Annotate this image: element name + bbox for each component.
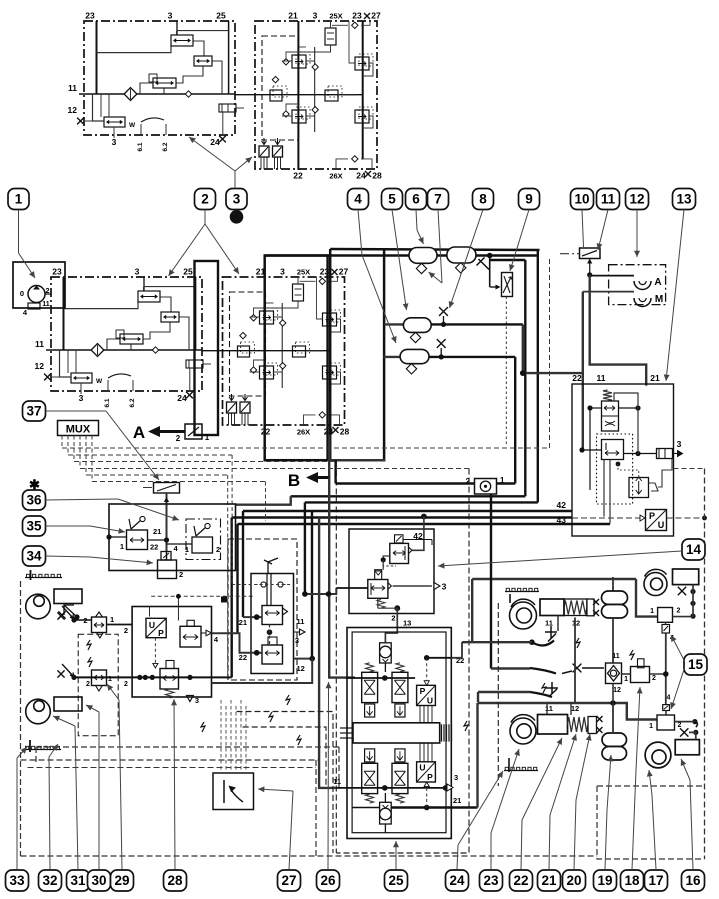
callout 21 [538, 870, 561, 891]
lever [264, 558, 278, 573]
callout 5 [382, 189, 403, 210]
svg-text:26: 26 [320, 873, 336, 888]
svg-text:2: 2 [216, 545, 220, 554]
callout 20 [563, 870, 586, 891]
relief valve 24 [186, 360, 203, 368]
trunk drops to bundle [524, 260, 526, 496]
svg-text:1: 1 [15, 192, 23, 207]
main brake line front [74, 676, 232, 678]
abrasion sensor axle2 [24, 749, 61, 751]
svg-text:29: 29 [114, 873, 129, 888]
svg-text:35: 35 [26, 519, 42, 534]
tall column item 3 [195, 261, 219, 435]
svg-text:3: 3 [280, 267, 285, 277]
outlet 2/13 [377, 598, 379, 608]
dashed small box edges [227, 545, 229, 680]
svg-text:9: 9 [525, 192, 533, 207]
bleed arrow [64, 605, 77, 617]
svg-text:22: 22 [239, 653, 247, 662]
svg-text:11: 11 [297, 617, 305, 626]
port 21 [391, 806, 477, 808]
svg-text:24: 24 [210, 137, 220, 147]
wheel sensor axle2 [26, 699, 51, 724]
callout 36 [23, 490, 46, 510]
svg-text:5: 5 [388, 192, 396, 207]
svg-text:27: 27 [281, 873, 296, 888]
svg-text:19: 19 [597, 873, 612, 888]
proportional valve [153, 78, 176, 88]
svg-text:2: 2 [179, 570, 183, 579]
svg-text:22: 22 [293, 171, 303, 181]
svg-text:24: 24 [356, 171, 366, 181]
svg-text:6.1: 6.1 [104, 398, 111, 407]
svg-text:2: 2 [391, 614, 395, 623]
callout 23 [480, 870, 503, 891]
svg-text:42: 42 [557, 500, 567, 510]
svg-text:20: 20 [566, 873, 581, 888]
svg-text:27: 27 [371, 11, 381, 21]
port 11 row [336, 787, 445, 789]
svg-text:24: 24 [177, 393, 187, 403]
svg-text:1: 1 [120, 542, 124, 551]
valve item 35 [129, 519, 141, 529]
A port box [185, 424, 202, 439]
svg-text:36: 36 [26, 493, 42, 508]
callout 12 [626, 189, 649, 210]
svg-text:1: 1 [624, 676, 628, 683]
svg-text:2: 2 [677, 608, 681, 615]
line to rear top [305, 588, 336, 594]
relay module box [132, 607, 211, 698]
dashed wiring bottom-left [20, 581, 22, 856]
relay valve of 14 [375, 570, 382, 580]
svg-text:2: 2 [124, 626, 128, 635]
svg-text:3: 3 [454, 773, 458, 782]
main line through [235, 94, 363, 96]
tank row3 [383, 356, 400, 358]
pressure switch 6.1/6.2 [140, 124, 142, 135]
governor [602, 401, 619, 431]
svg-text:A: A [654, 277, 661, 288]
callout 16 [682, 870, 705, 891]
svg-text:12: 12 [68, 105, 78, 115]
svg-text:28: 28 [167, 873, 183, 888]
unload valve 3 [657, 449, 673, 459]
callout 30 [88, 870, 111, 891]
callout 10 [571, 189, 594, 210]
callout 8 [473, 189, 494, 210]
svg-text:33: 33 [9, 873, 25, 888]
branch + check [487, 253, 493, 259]
svg-text:M: M [655, 294, 663, 305]
relief valve 24 [219, 104, 236, 112]
svg-text:25X: 25X [297, 268, 310, 277]
svg-text:1: 1 [500, 476, 505, 485]
svg-text:3: 3 [135, 267, 140, 277]
svg-text:23: 23 [52, 267, 62, 277]
circuit protection valves [292, 55, 306, 68]
svg-text:4: 4 [354, 192, 362, 207]
svg-text:21: 21 [239, 618, 247, 627]
svg-text:3: 3 [195, 696, 199, 705]
svg-text:17: 17 [648, 873, 663, 888]
svg-text:P: P [158, 628, 164, 638]
charge valve [325, 28, 336, 45]
elec bolts [201, 722, 205, 732]
solenoid valve 2 [194, 56, 212, 66]
callout 22 [510, 870, 533, 891]
dashed enclosure accumulators [335, 462, 337, 854]
svg-text:U: U [419, 763, 425, 773]
feed step from supply line [636, 579, 658, 617]
svg-text:12: 12 [613, 687, 621, 694]
svg-text:31: 31 [70, 873, 86, 888]
svg-text:21: 21 [453, 796, 461, 805]
callout 9 [519, 189, 540, 210]
svg-text:3: 3 [79, 393, 84, 403]
levelling valve item 19 [606, 663, 622, 684]
svg-text:23: 23 [352, 11, 362, 21]
svg-text:1: 1 [649, 723, 653, 730]
port 22 [427, 657, 452, 659]
pump column links [384, 663, 386, 672]
svg-text:18: 18 [624, 873, 640, 888]
test port box [475, 479, 497, 495]
callout 26 [317, 870, 340, 891]
center valve [293, 346, 306, 357]
valve row2 right [657, 715, 675, 730]
svg-text:3: 3 [168, 11, 173, 21]
regeneration valve [629, 478, 649, 498]
svg-text:2: 2 [176, 434, 181, 443]
svg-text:1: 1 [108, 676, 112, 683]
svg-text:1: 1 [650, 608, 654, 615]
svg-text:0: 0 [20, 289, 24, 298]
P/U top [417, 685, 436, 705]
svg-text:3: 3 [677, 439, 682, 449]
air tank 6b [447, 247, 476, 263]
svg-text:W: W [129, 122, 136, 129]
callout 32 [39, 870, 62, 891]
callout 11 [597, 189, 620, 210]
drain valve W [71, 373, 92, 383]
svg-text:15: 15 [688, 657, 704, 672]
svg-text:11: 11 [42, 301, 50, 308]
svg-text:32: 32 [42, 873, 57, 888]
svg-text:21: 21 [288, 11, 298, 21]
svg-text:11: 11 [545, 704, 553, 713]
callout 15 [684, 654, 707, 675]
svg-text:12: 12 [297, 664, 305, 673]
valve item 18 [630, 650, 634, 660]
callout 17 [645, 870, 668, 891]
supply circuit sub-box [84, 21, 235, 135]
charge valve [293, 284, 304, 301]
callout 31 [67, 870, 90, 891]
pressure switch 6.1/6.2 [107, 380, 109, 391]
callout 6 [406, 189, 427, 210]
right dashed border [704, 469, 706, 860]
left valve [238, 346, 250, 357]
svg-text:12: 12 [35, 361, 45, 371]
output 12 wire [294, 658, 313, 660]
svg-text:24: 24 [449, 873, 465, 888]
top right wheel unit (item 17/16 upper) [644, 573, 667, 596]
svg-text:3: 3 [112, 137, 117, 147]
pressure sensors [227, 402, 237, 413]
svg-text:34: 34 [26, 549, 42, 564]
callout 2 [195, 189, 216, 210]
callout 25 [385, 870, 408, 891]
svg-text:43: 43 [557, 515, 567, 525]
callout 7 [428, 189, 449, 210]
abrasion sensor front [25, 577, 62, 579]
svg-text:3: 3 [233, 192, 241, 207]
four proportional valves [362, 672, 378, 702]
port 12 row [346, 677, 415, 679]
svg-text:22: 22 [150, 543, 158, 552]
electrical feed dashed [151, 595, 255, 597]
aux valve dash-dot box [186, 519, 221, 560]
svg-text:12: 12 [571, 704, 579, 713]
svg-text:2: 2 [466, 477, 471, 486]
governor spring [603, 390, 612, 401]
svg-text:P: P [427, 772, 433, 782]
main line 11 [46, 349, 202, 351]
main line through [203, 350, 331, 352]
P/U converter [646, 510, 667, 531]
ABS valve front axle 2 [92, 670, 107, 686]
svg-text:7: 7 [434, 192, 442, 207]
svg-text:22: 22 [572, 373, 582, 383]
lower valve [160, 669, 179, 690]
dryer dotted box [597, 434, 633, 504]
U/P bottom [417, 762, 436, 782]
relief valve item 9 [502, 273, 513, 297]
svg-text:14: 14 [686, 542, 702, 557]
svg-text:25: 25 [388, 873, 404, 888]
svg-text:2: 2 [124, 681, 128, 688]
heavy line to rear lower [476, 702, 479, 704]
callout 37 [23, 401, 46, 421]
main line 11 [79, 93, 235, 95]
callout 3 [226, 189, 247, 210]
svg-text:12: 12 [572, 619, 580, 628]
svg-text:11: 11 [35, 339, 44, 349]
svg-text:2: 2 [652, 675, 656, 682]
feed lines down to dryer unit [582, 292, 584, 450]
svg-text:23: 23 [483, 873, 499, 888]
svg-text:10: 10 [574, 192, 589, 207]
pump [28, 286, 45, 303]
svg-text:12: 12 [629, 192, 644, 207]
relay valve [180, 626, 201, 647]
hand brake valve lower [262, 645, 283, 664]
svg-text:22: 22 [513, 873, 528, 888]
svg-text:11: 11 [601, 192, 616, 207]
svg-text:11: 11 [545, 619, 553, 628]
svg-text:28: 28 [372, 171, 382, 181]
svg-text:U: U [427, 696, 433, 706]
proportional valve [120, 334, 143, 344]
svg-text:11: 11 [68, 83, 77, 93]
left valve [270, 90, 282, 101]
svg-text:21: 21 [153, 527, 161, 536]
tank row2 [384, 323, 403, 325]
ABS valve front-left [92, 617, 107, 633]
svg-text:16: 16 [685, 873, 701, 888]
callout 27 [278, 870, 301, 891]
callout 34 [23, 546, 46, 566]
svg-text:25X: 25X [329, 12, 342, 21]
callout 4 [348, 189, 369, 210]
svg-text:MUX: MUX [66, 424, 91, 436]
svg-text:11: 11 [612, 653, 620, 660]
callout 13 [673, 189, 696, 210]
supply circuit sub-box [51, 277, 202, 391]
callout 33 [6, 870, 29, 891]
hatch right [441, 724, 443, 741]
compressor A/M box item 12 [609, 265, 666, 305]
svg-text:A: A [133, 423, 145, 442]
solenoid valve [171, 35, 193, 46]
solenoid valve [138, 291, 160, 302]
hatch left [340, 727, 353, 729]
svg-text:13: 13 [676, 192, 692, 207]
svg-text:28: 28 [340, 427, 350, 437]
svg-text:26X: 26X [329, 172, 342, 181]
valve 15 upper [658, 608, 673, 623]
svg-text:25: 25 [183, 267, 193, 277]
svg-text:2: 2 [678, 722, 682, 729]
link [383, 556, 390, 570]
svg-text:23: 23 [85, 11, 95, 21]
svg-text:1: 1 [205, 433, 210, 442]
svg-text:6: 6 [412, 192, 420, 207]
heavy box left (item 3 circuit) [265, 256, 328, 461]
spring [377, 600, 385, 609]
callout 1 [8, 189, 29, 210]
spool body [353, 723, 440, 743]
svg-text:13: 13 [403, 619, 411, 628]
svg-text:26X: 26X [297, 428, 310, 437]
svg-text:4: 4 [667, 695, 671, 702]
svg-text:P: P [420, 686, 426, 696]
svg-text:25: 25 [216, 11, 226, 21]
svg-text:W: W [96, 378, 103, 385]
callout 28 [164, 870, 187, 891]
distribution circuit sub-box [223, 277, 345, 425]
pressure switch item 36 [154, 483, 180, 494]
svg-text:1: 1 [110, 615, 114, 624]
air tank 6a [409, 248, 437, 264]
callout 18 [621, 870, 644, 891]
svg-text:3: 3 [295, 636, 299, 645]
drain valve W [104, 117, 125, 127]
svg-text:11: 11 [333, 777, 341, 786]
hand brake valve upper [262, 606, 283, 625]
svg-text:6.1: 6.1 [137, 142, 144, 151]
pump unit box [13, 262, 65, 308]
distribution circuit sub-box [255, 21, 377, 169]
center valve [325, 90, 338, 101]
wheel speed sensor front [26, 594, 51, 619]
heavy box right [329, 249, 332, 460]
svg-text:30: 30 [91, 873, 106, 888]
svg-text:37: 37 [26, 404, 41, 419]
callout 19 [594, 870, 617, 891]
circuit protection valves [260, 311, 274, 324]
svg-text:3: 3 [442, 582, 447, 592]
svg-text:✱: ✱ [29, 477, 40, 492]
rear brake chamber row1 [505, 591, 539, 593]
trunk 23-24 [362, 21, 364, 160]
circulation pumps [380, 643, 392, 663]
svg-text:P: P [649, 511, 655, 521]
svg-text:2: 2 [201, 192, 209, 207]
svg-text:8: 8 [479, 192, 487, 207]
feed from line 42 [421, 514, 427, 520]
dryer valve [602, 440, 624, 460]
filter [124, 88, 137, 101]
port 1 left [336, 587, 368, 589]
svg-text:U: U [658, 520, 665, 530]
svg-text:21: 21 [650, 373, 660, 383]
svg-text:U: U [149, 620, 155, 630]
index dot for 3 [230, 210, 244, 224]
svg-text:1: 1 [185, 545, 189, 554]
rear heavy frame [490, 494, 492, 669]
callout 14 [682, 539, 705, 560]
svg-text:6.2: 6.2 [129, 398, 136, 407]
supply line row1 [265, 254, 538, 257]
callout 29 [111, 870, 134, 891]
svg-text:27: 27 [339, 267, 349, 277]
trunk from B down [329, 478, 355, 678]
U/P converter [146, 618, 166, 637]
callout 24 [446, 870, 469, 891]
callout 35 [23, 516, 46, 536]
pressure sensors [259, 146, 269, 157]
pilot valve [390, 543, 409, 563]
suspension bellows rear1 [612, 577, 614, 591]
svg-text:2: 2 [86, 681, 90, 688]
feeds into handbrake module [212, 633, 263, 652]
dashed box rear right [497, 603, 499, 786]
svg-text:11: 11 [597, 373, 606, 383]
bellows row2 [602, 733, 627, 747]
svg-text:3: 3 [313, 11, 318, 21]
lower right wheel unit [645, 742, 671, 768]
filter [91, 344, 104, 357]
svg-text:21: 21 [541, 873, 557, 888]
svg-text:6.2: 6.2 [162, 142, 169, 151]
solenoid valve 2 [161, 312, 179, 322]
svg-text:B: B [288, 471, 300, 490]
trunk 21-22 [297, 21, 299, 170]
